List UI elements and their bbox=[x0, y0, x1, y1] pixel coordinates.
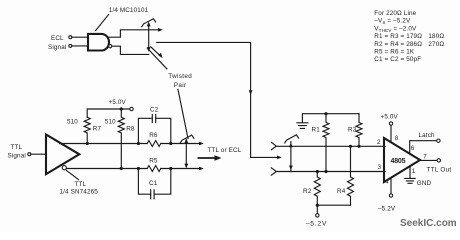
junction -5.2V bbox=[316, 204, 319, 207]
junction C1 left bbox=[137, 167, 140, 170]
junction R4 top bbox=[349, 145, 352, 148]
junction C1 right bbox=[169, 167, 172, 170]
svg-text:Signal: Signal bbox=[8, 153, 26, 160]
wire twisted pair run to receiver bbox=[157, 42, 280, 157]
junction R7 on top line bbox=[86, 142, 89, 145]
svg-text:8: 8 bbox=[395, 135, 399, 142]
resistor R8 bbox=[118, 109, 124, 169]
junction R1 top bbox=[324, 112, 327, 115]
arrowhead down twist2 bbox=[184, 164, 188, 169]
wire +5V rail TTL bbox=[87, 109, 130, 117]
svg-text:+5.0V: +5.0V bbox=[381, 114, 399, 121]
wire ECL input bottom bbox=[72, 45, 88, 47]
twisted pair crossover 2 vertical bbox=[185, 140, 187, 167]
svg-text:TTL: TTL bbox=[75, 181, 87, 188]
node ECL input terminal top bbox=[69, 36, 72, 39]
junction R2 top bbox=[316, 170, 319, 173]
resistor R3 bbox=[356, 114, 362, 147]
svg-text:180Ω: 180Ω bbox=[428, 33, 444, 40]
wire pin 6 latch bbox=[410, 141, 437, 154]
svg-text:ECL: ECL bbox=[51, 35, 64, 42]
svg-text:R3: R3 bbox=[348, 127, 357, 134]
svg-text:For 220Ω Line: For 220Ω Line bbox=[374, 10, 416, 17]
svg-text:510: 510 bbox=[105, 119, 116, 126]
arrowhead into receiver bbox=[277, 156, 282, 160]
junction C2 right bbox=[169, 142, 172, 145]
wire pin 4 bbox=[390, 178, 392, 194]
svg-text:R1: R1 bbox=[312, 127, 321, 134]
resistor R7 bbox=[84, 117, 90, 143]
svg-text:+5.0V: +5.0V bbox=[109, 99, 127, 106]
svg-text:C1: C1 bbox=[149, 180, 158, 187]
svg-text:1/4 MC10101: 1/4 MC10101 bbox=[109, 7, 149, 14]
gate U1 1/4 MC10101 OR/NOR body bbox=[88, 34, 109, 51]
arrowhead down twist3 bbox=[289, 166, 293, 171]
svg-text:1/4 SN74265: 1/4 SN74265 bbox=[60, 189, 99, 196]
svg-text:2: 2 bbox=[377, 139, 381, 146]
buffer U2 1/4 SN74265 triangle bbox=[46, 135, 79, 175]
svg-text:270Ω: 270Ω bbox=[428, 41, 444, 48]
svg-text:R2 = R4 = 286Ω: R2 = R4 = 286Ω bbox=[374, 41, 422, 48]
svg-text:R5: R5 bbox=[149, 158, 158, 165]
wire receiver line pin2 bbox=[276, 145, 385, 147]
wire pin 1 ground bbox=[409, 167, 411, 178]
pointer to U2 label bbox=[66, 170, 78, 179]
capacitor C2 branch bbox=[138, 118, 170, 143]
arrowhead up twist3 bbox=[289, 143, 293, 148]
capacitor C2 plates bbox=[152, 114, 155, 122]
ground symbol receiver bbox=[297, 123, 308, 129]
arrowhead TTL top out bbox=[199, 142, 204, 146]
node Latch terminal bbox=[437, 139, 440, 142]
svg-text:R4: R4 bbox=[337, 188, 346, 195]
resistor R1 bbox=[323, 114, 329, 172]
wire TTL top output line bbox=[60, 143, 202, 145]
wire U1 bottom output bbox=[112, 46, 149, 54]
resistor R4 bbox=[348, 146, 354, 205]
svg-text:C2: C2 bbox=[150, 107, 159, 114]
svg-text:TTL Out: TTL Out bbox=[427, 166, 452, 173]
node TTL input terminal bbox=[28, 153, 31, 156]
svg-text:6: 6 bbox=[411, 145, 415, 152]
wire -5.2V rail bbox=[317, 204, 350, 206]
twist hook 2 bbox=[180, 135, 194, 143]
gate U1 output bubble bbox=[109, 45, 112, 48]
svg-text:SeekIC.com: SeekIC.com bbox=[400, 218, 457, 229]
arrowhead down twist1 bbox=[147, 47, 151, 52]
twist hook 3 bbox=[285, 135, 299, 143]
svg-text:TTL or ECL: TTL or ECL bbox=[208, 147, 242, 154]
chevron receiver bottom bbox=[271, 168, 276, 175]
twisted pair crossover 3 vertical bbox=[290, 142, 292, 172]
svg-text:VTHEV = –2.0V: VTHEV = –2.0V bbox=[374, 25, 417, 33]
svg-text:4805: 4805 bbox=[391, 158, 406, 165]
wire pin 7 output bbox=[420, 159, 437, 161]
junction R3 bottom bbox=[357, 145, 360, 148]
arrowhead TTL bottom out bbox=[199, 167, 204, 171]
svg-text:Twisted: Twisted bbox=[168, 73, 192, 80]
node +5V terminal bbox=[130, 107, 133, 110]
twist hook 1 bbox=[142, 19, 156, 27]
twisted pair crossover 1 vertical bbox=[148, 24, 150, 51]
svg-text:7: 7 bbox=[423, 153, 427, 160]
wire TTL input bbox=[31, 153, 46, 155]
junction R1 bottom bbox=[324, 170, 327, 173]
svg-text:–5.2V: –5.2V bbox=[306, 221, 327, 228]
resistor R6 bbox=[147, 141, 161, 147]
svg-text:GND: GND bbox=[417, 180, 432, 187]
svg-text:R7: R7 bbox=[93, 126, 102, 133]
node +5.0V terminal comparator bbox=[389, 122, 392, 125]
arrowhead up twist2 bbox=[184, 138, 188, 143]
wire ECL input top bbox=[72, 36, 88, 38]
chevron receiver top bbox=[271, 142, 276, 150]
wire U1 top output bbox=[107, 30, 160, 37]
junction C2 left bbox=[137, 142, 140, 145]
junction R8 top bbox=[120, 107, 123, 110]
svg-text:R5 = R6 = 1K: R5 = R6 = 1K bbox=[374, 49, 415, 56]
label pointer to U1 bbox=[96, 15, 109, 31]
svg-text:3: 3 bbox=[378, 164, 382, 171]
wire pin 8 bbox=[390, 125, 392, 142]
wire receiver line pin3 bbox=[276, 171, 385, 173]
node -5.2V terminal bbox=[316, 214, 319, 217]
svg-text:C1 = C2 = 50pF: C1 = C2 = 50pF bbox=[374, 56, 421, 63]
svg-text:Latch: Latch bbox=[419, 132, 436, 139]
node -5.2V terminal comparator bbox=[389, 194, 392, 197]
svg-text:1: 1 bbox=[412, 168, 416, 175]
arrowhead twisted line top right bbox=[158, 28, 163, 32]
pointer from Twisted Pair label lower bbox=[178, 90, 188, 139]
svg-text:Signal: Signal bbox=[48, 44, 66, 51]
comparator U3 4805 triangle bbox=[384, 138, 420, 182]
svg-text:–5.2V: –5.2V bbox=[378, 206, 396, 213]
svg-text:4: 4 bbox=[385, 179, 389, 186]
svg-text:–VS = –5.2V: –VS = –5.2V bbox=[374, 18, 411, 26]
svg-text:Pair: Pair bbox=[174, 82, 187, 89]
node TTL Out terminal bbox=[437, 159, 440, 162]
svg-text:TTL: TTL bbox=[11, 144, 23, 151]
diagonal arrow twist1 bbox=[151, 47, 160, 56]
ground symbol pin1 bbox=[405, 178, 415, 183]
wire TTL bottom output line bbox=[66, 168, 201, 170]
resistor R5 bbox=[147, 166, 161, 172]
arrowhead up twist1 bbox=[147, 22, 151, 27]
svg-text:R8: R8 bbox=[126, 126, 135, 133]
capacitor C1 branch bbox=[138, 169, 170, 195]
junction R8 on bottom line bbox=[120, 167, 123, 170]
buffer U2 inverting output bubble bbox=[62, 166, 66, 170]
resistor R2 bbox=[314, 172, 320, 206]
capacitor C1 plates bbox=[151, 190, 154, 199]
wire -5.2V stem bbox=[316, 205, 318, 214]
bold direction arrow bbox=[198, 157, 216, 159]
node ECL input terminal bottom bbox=[69, 44, 72, 47]
svg-text:R6: R6 bbox=[149, 132, 158, 139]
svg-text:510: 510 bbox=[67, 119, 78, 126]
svg-text:R2: R2 bbox=[303, 188, 312, 195]
arrowhead mid vertical down bbox=[249, 90, 253, 95]
svg-text:R1 = R3 = 179Ω: R1 = R3 = 179Ω bbox=[374, 33, 422, 40]
ground receiver rail bbox=[302, 114, 359, 123]
pointer to Twisted Pair label upper bbox=[147, 48, 167, 69]
